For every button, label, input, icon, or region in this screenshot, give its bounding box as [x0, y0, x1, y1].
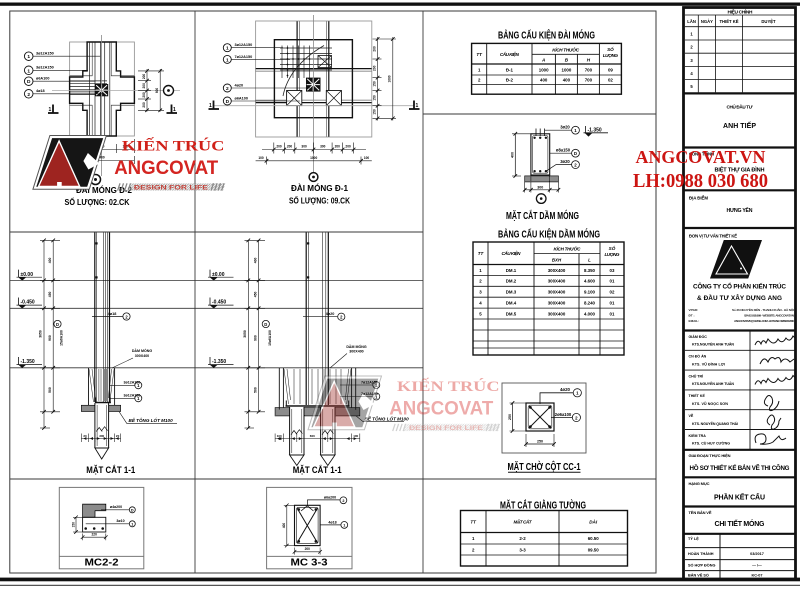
rebar horizontals: [70, 81, 107, 95]
signature rows: [685, 331, 795, 450]
level mark -0.450: [17, 298, 43, 309]
axis bubble: [536, 194, 546, 204]
svg-text:200: 200: [305, 547, 311, 551]
mesh dots: [287, 47, 311, 76]
revision table HIỆU CHỈNH: [685, 15, 795, 92]
level mark -1.350: [17, 357, 43, 368]
callout 2: 3ø20: [546, 165, 572, 172]
svg-text:8.240: 8.240: [584, 301, 596, 306]
svg-text:KTS. CÙ HUY CƯỜNG: KTS. CÙ HUY CƯỜNG: [692, 441, 730, 446]
svg-text:200: 200: [142, 83, 146, 89]
footing bottom rebar: [286, 405, 350, 407]
svg-text:300X400: 300X400: [548, 301, 566, 306]
svg-text:VẼ: VẼ: [689, 413, 694, 418]
beam outline: [531, 134, 550, 175]
svg-text:7ø12A150: 7ø12A150: [235, 55, 253, 59]
svg-text:03/2017: 03/2017: [750, 552, 764, 556]
svg-text:TỶ LỆ: TỶ LỆ: [688, 536, 699, 541]
callout D: ø6A100: [24, 77, 33, 86]
svg-text:D: D: [264, 322, 267, 327]
rebar mesh horizontals: [280, 48, 332, 70]
svg-text:D: D: [226, 99, 230, 105]
svg-text:KTS. VŨ NGỌC SƠN: KTS. VŨ NGỌC SƠN: [692, 401, 728, 406]
bottom dim 200: [295, 551, 321, 553]
svg-text:BẢNG CẤU KIỆN DẦM MÓNG: BẢNG CẤU KIỆN DẦM MÓNG: [498, 228, 600, 241]
callout 1: 4ø20: [540, 393, 573, 404]
svg-text:CHỦ ĐẦU TƯ: CHỦ ĐẦU TƯ: [727, 104, 753, 110]
wall hatch: [83, 504, 106, 517]
level line ±0.00: [10, 279, 423, 281]
svg-text:500: 500: [253, 387, 257, 393]
svg-text:2-2: 2-2: [519, 536, 526, 541]
footing pit: [279, 368, 355, 410]
svg-text:ø4a200: ø4a200: [110, 505, 122, 509]
section cut flag left: [48, 105, 59, 114]
svg-text:CHỦ TRÌ: CHỦ TRÌ: [689, 373, 704, 378]
svg-text:KÍCH THƯỚC: KÍCH THƯỚC: [552, 45, 580, 52]
pedestal cross outline: [70, 42, 135, 136]
svg-text:2: 2: [27, 92, 30, 98]
svg-text:— /—: — /—: [752, 564, 762, 568]
svg-text:200: 200: [373, 65, 377, 71]
leader curve: [283, 46, 324, 97]
svg-text:400: 400: [48, 257, 52, 263]
right dimension chains: [138, 69, 164, 112]
detail bubble: [91, 175, 101, 185]
callout D: ø6A100: [223, 97, 231, 105]
svg-text:EMAIL:: EMAIL:: [689, 319, 700, 323]
svg-text:1: 1: [49, 107, 52, 113]
svg-text:ĐƠN VỊ TƯ VẤN THIẾT KẾ: ĐƠN VỊ TƯ VẤN THIẾT KẾ: [689, 234, 737, 239]
svg-text:01: 01: [610, 301, 615, 306]
foundation beam vertical strip: [297, 21, 329, 136]
svg-text:09.50: 09.50: [588, 547, 600, 552]
callout 2: 4ø20: [223, 84, 231, 92]
svg-text:MC2-2: MC2-2: [85, 558, 119, 569]
svg-text:15ø6A100: 15ø6A100: [268, 330, 272, 346]
svg-text:1: 1: [131, 522, 133, 526]
section divider horizontal y=479: [10, 478, 656, 480]
section divider horizontal y=232: [10, 231, 423, 233]
axis line vertical: [313, 15, 315, 173]
section cut flag right: [167, 105, 178, 114]
svg-text:DM.5: DM.5: [506, 311, 517, 316]
svg-text:1: 1: [416, 103, 419, 109]
svg-text:-0.450: -0.450: [21, 300, 35, 306]
left dim 150: [75, 517, 77, 532]
box: [59, 487, 144, 568]
svg-text:MẶT CẮT 1-1: MẶT CẮT 1-1: [86, 465, 135, 475]
lean concrete hatch strip: [525, 176, 559, 182]
pile cap outline: [274, 40, 352, 118]
svg-text:4ø20: 4ø20: [326, 312, 335, 316]
svg-text:ø6A100: ø6A100: [36, 77, 50, 81]
svg-text:200: 200: [142, 102, 146, 108]
callout D : ø4a200: [101, 509, 129, 511]
bottom dim 220: [83, 536, 106, 538]
rebar verticals: [90, 43, 110, 136]
section MẶT CẮT 1-1 (middle): [208, 233, 409, 476]
svg-text:300X400: 300X400: [548, 290, 566, 295]
pile square left: [287, 91, 302, 106]
svg-text:TÊN BẢN VẼ: TÊN BẢN VẼ: [689, 510, 712, 515]
svg-text:03: 03: [610, 268, 615, 273]
callout 1 : 3ø10: [86, 523, 130, 525]
company logo: [710, 240, 762, 279]
axis bubble: [164, 86, 174, 96]
svg-text:GIAI ĐOẠN THỰC HIỆN: GIAI ĐOẠN THỰC HIỆN: [689, 453, 731, 458]
svg-text:150: 150: [71, 522, 75, 528]
svg-text:3050: 3050: [243, 330, 247, 338]
svg-text:900: 900: [48, 335, 52, 341]
drawing area frame: [10, 11, 656, 573]
column (filled): [95, 84, 108, 96]
footing bottom rebar: [95, 402, 111, 404]
svg-text:20: 20: [116, 434, 120, 438]
svg-text:200: 200: [373, 46, 377, 52]
svg-text:ANGCOVAT.VN@GMAIL.COM - HOTLIN: ANGCOVAT.VN@GMAIL.COM - HOTLINE: 0988.03…: [734, 319, 794, 323]
svg-text:D: D: [574, 151, 577, 156]
svg-text:KTS. VŨ ĐÌNH LỢI: KTS. VŨ ĐÌNH LỢI: [692, 361, 725, 366]
level line -1.350: [10, 367, 423, 369]
beam section: [295, 505, 321, 545]
svg-text:BẢN VẼ SỐ: BẢN VẼ SỐ: [688, 573, 709, 578]
svg-text:1: 1: [226, 46, 229, 52]
svg-text:DẦM MÓNG: DẦM MÓNG: [132, 348, 153, 353]
svg-text:100: 100: [277, 434, 282, 438]
level mark -1.350: [584, 126, 609, 137]
svg-text:ANGCOVAT.VN: ANGCOVAT.VN: [636, 147, 766, 167]
level mark ±0.00: [17, 270, 43, 281]
svg-text:L: L: [588, 258, 591, 263]
top border thick bar: [0, 3, 800, 6]
svg-text:VPGD:: VPGD:: [689, 308, 699, 312]
svg-text:400: 400: [540, 78, 548, 83]
svg-text:4ø20: 4ø20: [235, 83, 244, 87]
svg-text:ø8a150: ø8a150: [556, 147, 571, 152]
svg-text:300: 300: [537, 186, 543, 190]
svg-text:300X400: 300X400: [548, 279, 566, 284]
svg-text:Đ-2: Đ-2: [506, 78, 514, 83]
svg-text:-1.350: -1.350: [212, 359, 226, 365]
svg-text:±0.00: ±0.00: [21, 272, 34, 278]
svg-text:SỐ LƯỢNG: 02.CK: SỐ LƯỢNG: 02.CK: [65, 197, 130, 207]
svg-text:DM.3: DM.3: [506, 290, 517, 295]
svg-text:200: 200: [142, 74, 146, 80]
lean concrete strip: [275, 408, 360, 416]
svg-text:400: 400: [563, 78, 571, 83]
excavation outline (gray): [70, 42, 135, 136]
dimension chains left: [40, 240, 60, 428]
svg-text:1000: 1000: [562, 67, 572, 72]
svg-text:KC-07: KC-07: [752, 574, 763, 578]
svg-text:D: D: [131, 508, 134, 512]
svg-text:-1.350: -1.350: [588, 128, 602, 134]
callout D: ø8a150: [550, 152, 572, 154]
svg-text:4.600: 4.600: [584, 279, 596, 284]
svg-text:DÀI: DÀI: [589, 519, 598, 525]
svg-text:1: 1: [27, 54, 30, 60]
svg-text:3-3: 3-3: [519, 547, 526, 552]
svg-text:20: 20: [83, 434, 87, 438]
svg-text:150: 150: [373, 109, 377, 115]
left dim 400: [286, 505, 288, 545]
section MẶT CẮT 1-1 (left): [17, 233, 178, 476]
svg-text:CẤU KIỆN: CẤU KIỆN: [502, 249, 522, 256]
svg-text:400: 400: [511, 152, 515, 158]
thick separator: [684, 92, 796, 94]
svg-text:3050: 3050: [39, 330, 43, 338]
svg-text:2: 2: [342, 499, 344, 503]
pile bottom dims: [275, 434, 360, 443]
svg-text:GIÁM ĐỐC: GIÁM ĐỐC: [689, 334, 708, 339]
svg-text:2: 2: [226, 86, 229, 92]
svg-text:1: 1: [27, 68, 30, 74]
svg-text:200: 200: [345, 145, 351, 149]
svg-text:MẶT CẮT 1-1: MẶT CẮT 1-1: [293, 465, 342, 475]
bottom dimension rows: [70, 139, 135, 164]
pile square right: [326, 91, 341, 106]
svg-text:KÍCH THƯỚC: KÍCH THƯỚC: [554, 244, 582, 251]
svg-text:ø6A100: ø6A100: [235, 96, 249, 100]
section divider vertical x=195: [194, 11, 196, 573]
svg-text:600: 600: [155, 88, 159, 94]
svg-text:MẶT CẮT DẦM MÓNG: MẶT CẮT DẦM MÓNG: [506, 209, 579, 222]
table BẢNG CẤU KIỆN DẦM MÓNG: [473, 242, 624, 355]
svg-text:1: 1: [173, 107, 176, 113]
svg-text:9.100: 9.100: [584, 290, 596, 295]
svg-text:A: A: [541, 58, 545, 63]
label BÊ TÔNG LÓT M100: [356, 416, 404, 422]
svg-text:15ø6A100: 15ø6A100: [60, 330, 64, 346]
svg-text:-1.350: -1.350: [21, 359, 35, 365]
svg-text:3ø20: 3ø20: [560, 124, 570, 129]
svg-text:MẶT CẮT: MẶT CẮT: [514, 518, 533, 525]
svg-text:02: 02: [608, 78, 613, 83]
column (filled): [306, 78, 321, 92]
svg-text:200: 200: [142, 92, 146, 98]
svg-text:ĐÀI MÓNG Đ-1: ĐÀI MÓNG Đ-1: [291, 182, 348, 193]
svg-text:D: D: [27, 79, 31, 85]
inner beam lines: [70, 42, 135, 136]
bottom dim 250: [526, 443, 554, 445]
section cut line: [214, 105, 414, 107]
svg-text:NGÀY: NGÀY: [701, 19, 713, 24]
left dimension 400: [514, 134, 516, 176]
svg-text:8.350: 8.350: [584, 268, 596, 273]
pile bottom dims: [81, 434, 120, 443]
svg-text:THIẾT KẾ: THIẾT KẾ: [719, 19, 738, 24]
rebar dots: [533, 137, 535, 139]
column: [306, 233, 328, 406]
svg-text:3ø12A150: 3ø12A150: [235, 43, 253, 47]
svg-text:300: 300: [301, 145, 307, 149]
box: [267, 487, 352, 568]
svg-text:-0.450: -0.450: [212, 300, 226, 306]
section cut flag right: [409, 101, 420, 110]
footing pit: [89, 368, 115, 405]
callout 2: 4ø18: [24, 90, 33, 99]
lean concrete strip: [81, 405, 120, 411]
svg-text:KIỂM TRA: KIỂM TRA: [689, 433, 707, 438]
svg-text:02: 02: [610, 290, 615, 295]
svg-text:SỐ LƯỢNG: 09.CK: SỐ LƯỢNG: 09.CK: [289, 196, 350, 206]
svg-text:1: 1: [226, 57, 229, 63]
svg-text:KTS.NGUYỄN ANH TUẤN: KTS.NGUYỄN ANH TUẤN: [692, 381, 734, 386]
level mark -0.450: [208, 298, 234, 309]
excavation outline (gray): [256, 21, 372, 137]
svg-text:450: 450: [253, 291, 257, 297]
svg-text:1000: 1000: [539, 67, 549, 72]
svg-text:100: 100: [353, 434, 358, 438]
callout 2 : 4ø20: [303, 316, 337, 318]
svg-text:SỐ: SỐ: [607, 46, 614, 52]
svg-text:BẢNG CẤU KIỆN ĐÀI MÓNG: BẢNG CẤU KIỆN ĐÀI MÓNG: [498, 29, 595, 42]
bottom mini table: [685, 534, 795, 580]
bottom dimension rows: [256, 143, 372, 165]
svg-text:HƯNG YÊN: HƯNG YÊN: [727, 206, 753, 214]
svg-text:250: 250: [508, 414, 512, 420]
svg-text:BXH: BXH: [552, 258, 562, 263]
left dim 250: [512, 403, 514, 431]
svg-text:100: 100: [258, 156, 264, 160]
svg-text:01: 01: [610, 311, 615, 316]
svg-text:300: 300: [99, 434, 104, 438]
axis lines: [52, 90, 180, 92]
rebar sticking above: [535, 129, 537, 137]
callout 2 : 4ø18: [92, 316, 123, 318]
svg-text:09: 09: [608, 67, 613, 72]
callout 1: 3ø20: [545, 129, 572, 131]
svg-text:60.50: 60.50: [588, 536, 600, 541]
bottom border thick bar: [0, 578, 800, 582]
svg-text:1000: 1000: [310, 156, 317, 160]
right dimension chains: [373, 37, 397, 121]
table MẶT CẮT GIẰNG TƯỜNG: [461, 511, 628, 567]
section divider horizontal y=114 (tables column): [423, 113, 656, 115]
title block outer border: [684, 8, 796, 580]
detail MẶT CẮT DẦM MÓNG (beam section): [511, 124, 608, 203]
svg-text:300X400: 300X400: [349, 350, 363, 354]
svg-text:400: 400: [282, 523, 286, 529]
rebar mesh verticals: [282, 46, 310, 79]
bottom thin rule: [0, 584, 800, 586]
svg-text:3ø10: 3ø10: [116, 519, 124, 523]
svg-text:4ø20: 4ø20: [560, 387, 571, 392]
pile 1: [290, 407, 304, 466]
beam: [83, 517, 106, 532]
callout 1 : 4ø18: [320, 524, 341, 526]
label BÊ TÔNG LÓT M100: [119, 412, 177, 424]
svg-text:250: 250: [537, 439, 543, 443]
svg-text:200: 200: [276, 145, 282, 149]
svg-text:200: 200: [287, 145, 293, 149]
table BẢNG CẤU KIỆN ĐÀI MÓNG: [472, 43, 622, 94]
svg-text:LƯỢNG: LƯỢNG: [605, 252, 620, 257]
svg-text:200: 200: [335, 145, 341, 149]
svg-text:024.62.918.999 - WEBSITE: ANGC: 024.62.918.999 - WEBSITE: ANGCOVAT.VN: [744, 314, 795, 318]
level mark ±0.00: [208, 270, 234, 281]
svg-text:DẦM MÓNG: DẦM MÓNG: [346, 344, 367, 349]
svg-text:ø6a200: ø6a200: [324, 495, 336, 499]
svg-text:D: D: [56, 322, 59, 327]
column: [95, 233, 110, 403]
svg-text:DM.2: DM.2: [506, 279, 517, 284]
svg-text:4ø18: 4ø18: [328, 520, 336, 524]
callout 1b: 7ø12A150: [223, 55, 231, 63]
detail box MẶT CHỜ CỘT CC-1: [502, 383, 586, 453]
svg-text:MẶT CẮT GIẰNG TƯỜNG: MẶT CẮT GIẰNG TƯỜNG: [500, 499, 586, 512]
detail bubble: [309, 173, 318, 182]
svg-text:2ø6a100: 2ø6a100: [555, 412, 572, 417]
svg-text:1000: 1000: [388, 75, 392, 82]
pile 2: [321, 407, 335, 466]
callout 1b: 3ø12A150: [24, 66, 33, 75]
watermark Kiến Trúc ANGCOVAT (middle, faded): [308, 376, 501, 432]
svg-text:CN ĐỒ ÁN: CN ĐỒ ÁN: [689, 354, 707, 359]
svg-text:220: 220: [92, 533, 98, 537]
svg-text:700: 700: [585, 67, 593, 72]
svg-text:150: 150: [373, 81, 377, 87]
column section: [526, 403, 554, 431]
svg-text:500: 500: [48, 387, 52, 393]
svg-text:300X400: 300X400: [548, 268, 566, 273]
callout 1: 3ø12A150: [24, 52, 33, 61]
svg-text:Đ-1: Đ-1: [506, 67, 514, 72]
svg-text:400: 400: [253, 257, 257, 263]
svg-text:01: 01: [610, 279, 615, 284]
svg-text:100: 100: [364, 156, 370, 160]
level line -0.450: [10, 307, 423, 309]
pile square top: [318, 56, 332, 68]
svg-text:HẠNG MỤC: HẠNG MỤC: [689, 481, 710, 486]
svg-text:4ø18: 4ø18: [36, 89, 45, 93]
svg-text:4.000: 4.000: [584, 311, 596, 316]
section cut flag left: [209, 101, 220, 110]
svg-text:KTS.NGUYỄN ANH TUẤN: KTS.NGUYỄN ANH TUẤN: [692, 342, 734, 347]
callout 2 : ø6a200: [308, 500, 340, 505]
stirrup callout D: [262, 320, 269, 327]
watermark ANGCOVAT.VN contact (top-right, red): [633, 147, 768, 192]
svg-text:300: 300: [320, 145, 326, 149]
svg-text:THIẾT KẾ: THIẾT KẾ: [689, 393, 706, 398]
svg-text:SỐ: SỐ: [609, 245, 616, 251]
svg-text:DUYỆT: DUYỆT: [761, 19, 776, 24]
svg-text:ĐT :: ĐT :: [689, 314, 695, 318]
svg-text:1: 1: [343, 524, 345, 528]
svg-text:1: 1: [209, 103, 212, 109]
callout 1: 3ø12A150: [223, 44, 231, 52]
signatures: [755, 336, 796, 444]
svg-text:150: 150: [373, 95, 377, 101]
svg-text:LƯỢNG: LƯỢNG: [603, 53, 618, 58]
svg-text:ĐỊA ĐIỂM: ĐỊA ĐIỂM: [689, 195, 708, 200]
level mark -1.350: [208, 357, 234, 368]
svg-text:HOÀN THÀNH: HOÀN THÀNH: [688, 551, 714, 556]
svg-text:KTS. NGUYỄN QUANG THÁI: KTS. NGUYỄN QUANG THÁI: [692, 421, 738, 426]
svg-text:HỒ SƠ THIẾT KẾ BẢN VẼ THI CÔNG: HỒ SƠ THIẾT KẾ BẢN VẼ THI CÔNG: [690, 464, 790, 472]
svg-text:700: 700: [585, 78, 593, 83]
svg-text:LẦN: LẦN: [687, 19, 696, 24]
svg-text:DM.1: DM.1: [506, 268, 517, 273]
svg-text:Số 36 NGUYỄN XIỂN - THANH XUÂN: Số 36 NGUYỄN XIỂN - THANH XUÂN - HÀ NỘI: [732, 307, 794, 312]
svg-text:MC 3-3: MC 3-3: [291, 558, 328, 569]
svg-text:450: 450: [48, 291, 52, 297]
svg-text:CẤU KIỆN: CẤU KIỆN: [500, 50, 520, 57]
svg-text:SỐ HỢP ĐỒNG: SỐ HỢP ĐỒNG: [688, 563, 715, 568]
svg-text:600: 600: [310, 434, 315, 438]
foundation beam horizontal strip: [256, 69, 372, 103]
